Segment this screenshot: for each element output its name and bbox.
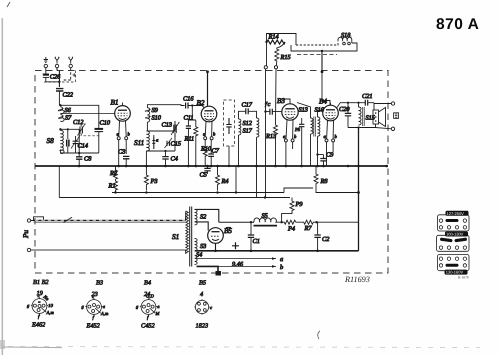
winding S4 (195, 252, 203, 265)
coil S11 (134, 131, 149, 151)
capacitor C16 (183, 96, 204, 109)
node C2 top (315, 221, 317, 223)
svg-text:S15: S15 (366, 115, 375, 122)
chassis earth lead (197, 266, 219, 272)
coil S7 (58, 115, 72, 122)
trimmer tap a (152, 137, 159, 149)
svg-text:127-250V: 127-250V (447, 211, 465, 216)
resistor R13 (265, 124, 278, 141)
wire padder row (60, 129, 79, 153)
svg-text:S6: S6 (65, 107, 72, 114)
svg-text:a: a (280, 256, 283, 263)
svg-text:A,m: A,m (100, 311, 109, 316)
svg-text:1823: 1823 (196, 323, 209, 330)
wire tuned block bottom (60, 150, 98, 157)
svg-text:R4: R4 (221, 178, 229, 185)
wire R13 to rail (275, 137, 277, 166)
svg-text:C452: C452 (141, 323, 155, 330)
capacitor C9 (316, 152, 334, 167)
svg-text:C7: C7 (212, 148, 220, 155)
chassis earth pad (216, 271, 222, 276)
node S15 top (357, 102, 359, 104)
wire C19 ground leg (301, 143, 303, 166)
winding S2 (195, 209, 208, 225)
fuse link (31, 217, 44, 221)
capacitor C8 (76, 156, 92, 167)
svg-text:R8: R8 (320, 178, 329, 185)
capacitor C21 (362, 93, 374, 107)
connector plug right (274, 66, 277, 69)
svg-text:B5: B5 (199, 280, 206, 287)
wire S12 S17 bottoms (239, 135, 257, 198)
svg-text:C22: C22 (63, 92, 74, 99)
mains lead lower (31, 249, 186, 251)
capacitor C1 (248, 222, 260, 251)
node R14 left (265, 41, 267, 43)
wire tap dashed stub (297, 54, 337, 56)
wire R7 to bus (317, 221, 359, 223)
wire decoupling link (235, 166, 237, 193)
corner slash mark (7, 2, 10, 7)
node aerial junction (58, 81, 60, 83)
svg-text:C10: C10 (100, 120, 111, 127)
aerial terminal Y2 (55, 57, 59, 68)
svg-text:R10: R10 (200, 146, 212, 153)
svg-text:S13: S13 (299, 107, 308, 114)
coil S17 (243, 118, 259, 137)
pin b B3 (291, 120, 297, 142)
wire B5 anode out (215, 243, 217, 251)
speaker terminal bottom (391, 127, 394, 130)
svg-text:S8: S8 (47, 137, 55, 145)
svg-text:S10: S10 (152, 115, 162, 122)
svg-text:Pu: Pu (22, 230, 30, 239)
svg-text:C21: C21 (362, 93, 373, 100)
svg-text:c: c (210, 305, 212, 310)
svg-text:100-130V: 100-130V (446, 232, 464, 237)
svg-text:S2: S2 (200, 214, 207, 221)
dashed inner screen box (43, 71, 76, 83)
svg-text:P5: P5 (294, 127, 301, 132)
svg-text:C12: C12 (73, 119, 84, 126)
wire R14 shunt bracket (267, 34, 297, 46)
resistor R1 (108, 179, 118, 192)
wire output bus down (358, 128, 360, 251)
connector icon (394, 113, 399, 119)
wire S11 box joins (146, 121, 175, 166)
svg-text:9.46: 9.46 (232, 261, 244, 268)
stray pen mark (318, 331, 320, 339)
svg-text:E452: E452 (86, 323, 101, 330)
svg-text:C16: C16 (183, 96, 194, 103)
coil S8 (47, 130, 65, 153)
tube B3 (277, 97, 298, 120)
wire R14 to plug (266, 42, 268, 66)
svg-text:G,D: G,D (146, 294, 154, 299)
svg-text:R13: R13 (265, 133, 276, 140)
svg-text:ƒc: ƒc (265, 101, 271, 108)
svg-text:B4: B4 (319, 98, 327, 106)
svg-text:10: 10 (48, 303, 53, 308)
resistor P3 (144, 166, 157, 191)
svg-text:C8: C8 (84, 156, 92, 163)
svg-text:130-160V: 130-160V (446, 270, 464, 275)
screen can dashed box (224, 100, 235, 146)
output transformer S15 (359, 103, 375, 126)
mains terminal top (27, 219, 30, 222)
svg-text:S12: S12 (243, 120, 253, 127)
connector plug left (264, 66, 267, 69)
coil S6 (58, 107, 72, 114)
capacitor inside can (226, 118, 231, 134)
pin a B2 (203, 121, 207, 139)
loudspeaker (373, 107, 386, 128)
coil S12 (239, 119, 253, 135)
wire speaker bottom (348, 128, 391, 129)
wire B3 cathode legs (286, 142, 293, 166)
wire B4 legs to rail (327, 142, 334, 166)
voltage selector 100-130V (437, 232, 470, 252)
wire grid tap to B1 (62, 112, 116, 114)
arrow b (272, 265, 276, 268)
wire rail2 to bus (316, 188, 359, 193)
pin a B1 (117, 121, 121, 140)
heater wire b (197, 265, 277, 267)
transformer core lines (314, 117, 316, 137)
svg-text:C2: C2 (322, 236, 330, 243)
capacitor C18 coupling (265, 101, 283, 115)
svg-text:R7: R7 (304, 225, 313, 232)
capacitor C22 (56, 89, 74, 106)
aerial terminal Y1 (69, 57, 73, 68)
svg-text:C13: C13 (162, 122, 173, 129)
plus sign (232, 242, 239, 249)
svg-text:C1: C1 (253, 238, 260, 245)
svg-text:R2: R2 (109, 170, 118, 177)
choke S5 (254, 213, 278, 226)
capacitor C12 variable (73, 119, 86, 136)
socket B1 B2 (27, 279, 54, 329)
svg-text:C17: C17 (242, 102, 253, 109)
node border junction (321, 70, 324, 73)
wire HT drop to border (321, 51, 323, 72)
ground rail (35, 165, 388, 167)
wire Y2 down (57, 68, 59, 87)
node C20 top (347, 102, 349, 104)
resistor R7 (296, 220, 317, 232)
capacitor C14 trimmer (71, 136, 88, 154)
resistor R10 (200, 140, 212, 166)
svg-text:S11: S11 (134, 139, 144, 147)
node C1 top (250, 221, 252, 223)
decoupling rail 2 (112, 188, 313, 193)
node screen ground (228, 165, 230, 167)
wire S9 top to C16 (147, 105, 184, 108)
wire screen can ground (228, 146, 230, 166)
node P9 wiper (280, 221, 282, 223)
svg-text:R1: R1 (108, 183, 116, 190)
capacitor C2 (314, 222, 330, 251)
node HT junction (321, 50, 323, 52)
wire coil box top (60, 105, 98, 128)
svg-text:C3: C3 (118, 149, 125, 156)
capacitor padder (67, 140, 69, 154)
node B2 top border (206, 70, 209, 73)
svg-text:C14: C14 (78, 143, 89, 150)
svg-text:c: c (38, 293, 40, 298)
svg-text:S18: S18 (341, 32, 351, 39)
svg-text:C4: C4 (171, 156, 178, 163)
svg-text:4: 4 (200, 291, 203, 298)
svg-text:B3: B3 (96, 280, 103, 287)
capacitor C13 variable (162, 121, 180, 137)
svg-text:R-1679: R-1679 (458, 276, 469, 280)
wire HT drop to B4 grid line (322, 72, 330, 105)
svg-text:R14: R14 (268, 34, 279, 41)
switch S18 (338, 32, 352, 45)
filter line (219, 221, 254, 223)
svg-text:C9: C9 (326, 152, 334, 159)
node rail dots (78, 165, 388, 168)
node tap junction (59, 128, 61, 130)
heater wire a (197, 258, 277, 260)
transformer S14 (315, 107, 325, 137)
pin a B4 (324, 120, 329, 141)
svg-text:C5: C5 (200, 172, 207, 179)
pin b B2 (210, 121, 216, 139)
node rail2 dots (114, 191, 266, 198)
socket B4 (136, 280, 161, 330)
wire S18 return (291, 43, 357, 51)
resistor R2 (109, 166, 118, 179)
wire S10 bottom box (146, 122, 148, 131)
socket B5 (194, 280, 212, 330)
svg-text:C20: C20 (339, 106, 350, 113)
svg-text:870 A: 870 A (436, 16, 479, 33)
svg-text:P9: P9 (295, 201, 304, 208)
earth terminal symbol (44, 57, 48, 68)
node padder (67, 128, 69, 130)
coil S10 (145, 115, 162, 123)
node coil top (59, 104, 61, 106)
svg-text:S3: S3 (200, 243, 206, 250)
capacitor C11 (184, 115, 194, 135)
node block bottom (78, 152, 80, 154)
svg-text:S9: S9 (152, 107, 159, 114)
capacitor C17 (239, 102, 257, 120)
arrow a (272, 257, 276, 260)
wire S13 top to B3 anode (297, 103, 311, 119)
tube B4 (319, 98, 338, 121)
tube B2 (197, 99, 217, 122)
svg-text:R11693: R11693 (344, 275, 370, 284)
capacitor C15 variable (165, 138, 182, 148)
transformer S1 core (190, 207, 192, 267)
wire B4 anode top line (337, 103, 363, 108)
svg-text:c: c (92, 294, 94, 299)
wire speaker top to terminal (374, 103, 391, 105)
dashed chassis border (35, 71, 388, 274)
transformer S1 primary (172, 211, 188, 254)
node C16 out (191, 104, 193, 106)
pin b B1 (125, 121, 131, 140)
decoupling rail 3 (59, 197, 290, 199)
svg-text:S7: S7 (65, 115, 72, 122)
svg-text:B4: B4 (144, 280, 151, 287)
svg-text:S1: S1 (172, 233, 179, 241)
svg-text:B1: B1 (111, 99, 119, 107)
wire resistance element to S18 (296, 41, 338, 45)
mains terminal bottom (27, 248, 30, 251)
capacitor C4 (162, 156, 178, 167)
resistor R4 (216, 166, 229, 191)
capacitor C10 (95, 120, 111, 154)
svg-text:C15: C15 (171, 141, 182, 148)
svg-text:B3: B3 (277, 97, 285, 105)
gang link dashed (84, 135, 99, 137)
capacitor C20 (339, 103, 351, 128)
node PSU rail dots (214, 250, 319, 253)
node C4 top (164, 150, 166, 152)
resistor R11 (184, 120, 198, 143)
resistor R14 (267, 34, 286, 45)
speaker terminal top (391, 102, 394, 105)
transformer S13 (299, 107, 313, 134)
svg-text:b: b (280, 264, 283, 271)
wire B1 cathode down (119, 140, 127, 166)
socket B3 (82, 280, 109, 330)
wire plugs into set (266, 69, 277, 198)
switch contact mark (73, 73, 76, 76)
wire B2 top drop (207, 72, 209, 107)
pin a B3 (283, 120, 287, 142)
svg-text:B1 B2: B1 B2 (33, 279, 49, 286)
capacitor C5 (200, 166, 211, 179)
resistor R15 (275, 42, 291, 66)
coil S9 (145, 107, 159, 115)
capacitor C3 (118, 149, 129, 167)
PSU bottom rail (195, 250, 359, 252)
wire S13 bottom legs (302, 133, 318, 166)
pin b B4 (332, 120, 338, 141)
svg-text:S4: S4 (196, 252, 202, 259)
resistor R8 (314, 166, 328, 188)
svg-text:P4: P4 (287, 226, 295, 233)
tube B5 rectifier (208, 227, 233, 243)
svg-text:S17: S17 (243, 128, 253, 135)
svg-text:B2: B2 (197, 99, 205, 107)
svg-text:R15: R15 (280, 54, 291, 61)
svg-text:E462: E462 (31, 322, 46, 329)
mains lead twisted (34, 220, 186, 222)
mains switch tick (64, 217, 73, 222)
tube B1 (111, 99, 131, 122)
wire rail3 left riser (58, 166, 60, 198)
node bus rail2 (357, 191, 360, 194)
svg-text:A,m: A,m (46, 310, 55, 315)
winding S3 (195, 238, 207, 250)
wire rectifier box (195, 209, 219, 251)
resistor P9 (282, 198, 304, 222)
voltage selector 127-250V (438, 211, 470, 231)
capacitor C26 (43, 68, 61, 82)
wire S14 top to B4 grid (318, 111, 323, 118)
node speaker bottom bus (357, 126, 359, 128)
capacitor C7 (208, 140, 219, 166)
svg-text:B5: B5 (224, 227, 232, 235)
resistor P4 (275, 220, 295, 232)
svg-text:S5: S5 (262, 213, 268, 220)
wire C11 R11 top (188, 106, 195, 167)
svg-text:P3: P3 (150, 178, 158, 185)
voltage selector 130-160V (438, 255, 470, 280)
capacitor C19 (294, 118, 304, 133)
wire Y1 dashed stub (62, 68, 71, 80)
